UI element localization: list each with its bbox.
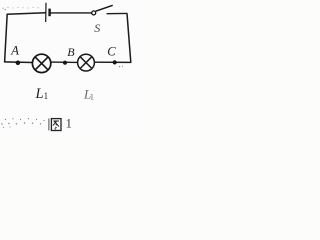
battery short plate (negative) bbox=[48, 9, 50, 17]
lamp L1 circle bbox=[32, 54, 50, 72]
svg-text:C: C bbox=[107, 45, 116, 59]
scan noise specks near node C bbox=[119, 66, 123, 68]
lamp L2 circle bbox=[78, 54, 95, 71]
scan noise specks top row bbox=[2, 7, 38, 10]
wire right vertical bbox=[127, 13, 131, 62]
caption vertical bar bbox=[48, 119, 50, 131]
svg-text:1: 1 bbox=[90, 91, 94, 101]
lamp L2 cross stroke 1 bbox=[80, 57, 92, 69]
switch S pivot circle bbox=[92, 11, 96, 15]
wire left vertical bbox=[5, 14, 8, 62]
wire top-left horizontal bbox=[7, 13, 46, 15]
wire switch to top-right corner bbox=[107, 12, 128, 14]
svg-text:1: 1 bbox=[44, 91, 49, 101]
lamp L1 cross stroke 2 bbox=[35, 57, 48, 70]
lamp L1 cross stroke 1 bbox=[35, 57, 48, 70]
wire between lamps bbox=[51, 61, 78, 63]
wire battery to switch bbox=[51, 12, 92, 14]
node B dot bbox=[63, 61, 67, 65]
scan noise specks bottom-left cluster bbox=[1, 118, 44, 128]
switch S lever (open) bbox=[96, 5, 113, 11]
svg-text:S: S bbox=[94, 21, 100, 35]
caption character tu (figure) drawn as box glyph bbox=[51, 119, 61, 131]
svg-text:1: 1 bbox=[66, 117, 72, 131]
wire bottom-left segment bbox=[4, 61, 33, 64]
node C dot bbox=[113, 60, 117, 64]
node A dot bbox=[16, 61, 21, 66]
svg-text:L: L bbox=[35, 86, 44, 102]
lamp L2 cross stroke 2 bbox=[80, 57, 92, 69]
wire bottom-right segment bbox=[94, 61, 131, 63]
svg-text:A: A bbox=[10, 43, 19, 57]
battery long plate (positive) bbox=[45, 3, 47, 22]
svg-text:B: B bbox=[67, 45, 75, 59]
